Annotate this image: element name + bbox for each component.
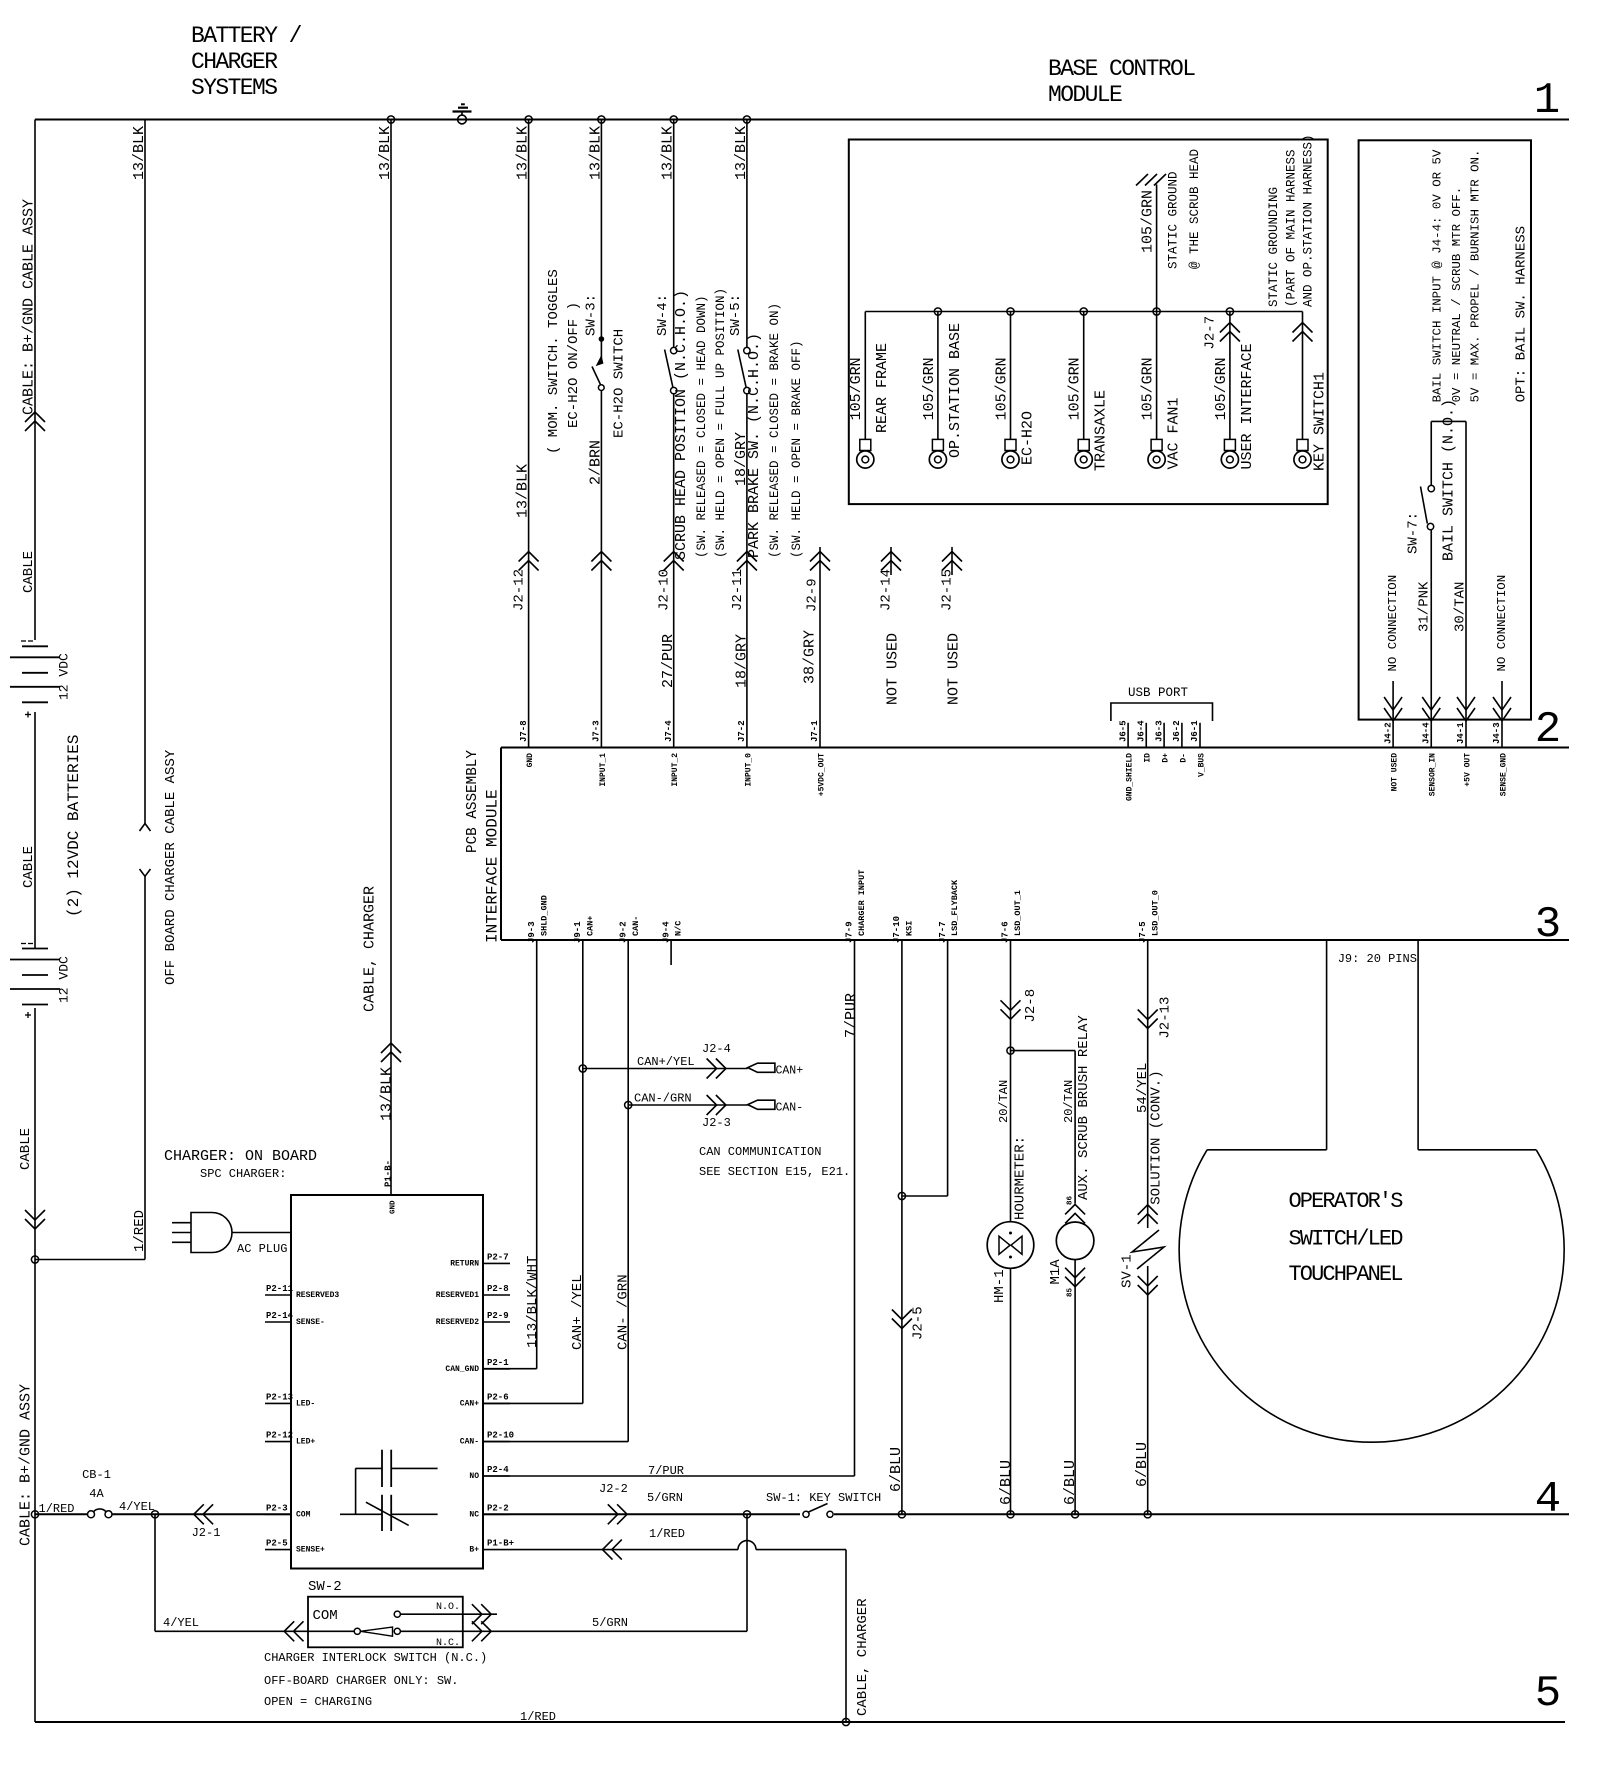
svg-text:27/PUR: 27/PUR [660, 634, 677, 688]
svg-text:J7-5: J7-5 [1138, 921, 1148, 943]
svg-text:NOT USED: NOT USED [945, 633, 962, 705]
svg-text:13/BLK: 13/BLK [514, 126, 531, 180]
svg-text:N.O.: N.O. [436, 1602, 460, 1613]
svg-text:PCB ASSEMBLY: PCB ASSEMBLY [465, 750, 481, 853]
svg-text:6/BLU: 6/BLU [888, 1447, 905, 1492]
svg-text:J2-4: J2-4 [702, 1042, 731, 1056]
svg-text:SENSOR_IN: SENSOR_IN [1429, 753, 1438, 796]
svg-text:(2) 12VDC BATTERIES: (2) 12VDC BATTERIES [65, 735, 83, 917]
svg-text:CAN+: CAN+ [776, 1065, 804, 1078]
svg-text:TOUCHPANEL: TOUCHPANEL [1289, 1262, 1403, 1287]
svg-text:13/BLK: 13/BLK [733, 126, 750, 180]
svg-text:@ THE SCRUB HEAD: @ THE SCRUB HEAD [1188, 149, 1202, 269]
svg-text:J2-10: J2-10 [657, 569, 673, 611]
svg-text:OPEN = CHARGING: OPEN = CHARGING [264, 1695, 372, 1709]
svg-text:P2-7: P2-7 [487, 1252, 509, 1262]
svg-text:J9-3: J9-3 [527, 921, 537, 943]
svg-text:18/GRY: 18/GRY [733, 634, 750, 688]
svg-text:D-: D- [1179, 753, 1188, 763]
svg-text:12 VDC: 12 VDC [57, 956, 72, 1003]
svg-text:CABLE: B+/GND ASSY: CABLE: B+/GND ASSY [17, 1384, 34, 1546]
svg-text:VAC FAN1: VAC FAN1 [1166, 397, 1183, 469]
svg-text:13/BLK: 13/BLK [131, 126, 148, 180]
svg-text:D+: D+ [1161, 753, 1170, 763]
svg-text:P2-13: P2-13 [266, 1392, 293, 1402]
svg-text:J4-4: J4-4 [1421, 722, 1431, 744]
svg-text:J2-11: J2-11 [730, 569, 746, 611]
svg-text:18/GRY: 18/GRY [733, 432, 750, 486]
svg-text:NOT USED: NOT USED [884, 633, 901, 705]
svg-text:NOT USED: NOT USED [1390, 753, 1399, 792]
svg-text:J2-1: J2-1 [192, 1526, 221, 1540]
svg-text:13/BLK: 13/BLK [660, 126, 677, 180]
svg-text:CHARGER INPUT: CHARGER INPUT [857, 870, 867, 936]
svg-text:4/YEL: 4/YEL [119, 1500, 155, 1514]
svg-text:COM: COM [296, 1510, 311, 1519]
svg-text:NO CONNECTION: NO CONNECTION [1386, 575, 1400, 672]
svg-text:J7-8: J7-8 [519, 720, 529, 742]
svg-text:+5V OUT: +5V OUT [1463, 753, 1472, 787]
svg-text:NC: NC [469, 1510, 479, 1519]
svg-text:105/GRN: 105/GRN [1213, 357, 1230, 420]
svg-text:13/BLK: 13/BLK [377, 126, 394, 180]
svg-text:OFF BOARD CHARGER CABLE ASSY: OFF BOARD CHARGER CABLE ASSY [163, 749, 179, 985]
svg-text:N.C.: N.C. [436, 1638, 460, 1649]
svg-text:BATTERY /: BATTERY / [191, 23, 302, 49]
svg-text:J4-3: J4-3 [1492, 722, 1502, 744]
svg-text:CAN COMMUNICATION: CAN COMMUNICATION [699, 1145, 821, 1159]
svg-text:CAN-/GRN: CAN-/GRN [634, 1092, 692, 1106]
svg-text:CAN+/YEL: CAN+/YEL [637, 1055, 695, 1069]
svg-text:P2-5: P2-5 [266, 1539, 288, 1549]
svg-text:(SW. HELD = OPEN = BRAKE OFF): (SW. HELD = OPEN = BRAKE OFF) [790, 340, 804, 558]
svg-text:1/RED: 1/RED [39, 1502, 75, 1516]
svg-text:12 VDC: 12 VDC [57, 653, 72, 700]
svg-text:AC PLUG: AC PLUG [237, 1242, 287, 1256]
svg-text:J7-6: J7-6 [1001, 921, 1011, 943]
svg-text:INPUT_2: INPUT_2 [671, 753, 680, 787]
svg-text:30/TAN: 30/TAN [1453, 582, 1469, 632]
svg-text:J2-15: J2-15 [940, 569, 956, 611]
svg-text:(SW. HELD = OPEN = FULL UP POS: (SW. HELD = OPEN = FULL UP POSITION) [714, 288, 728, 558]
svg-text:CHARGER INTERLOCK SWITCH (N.C.: CHARGER INTERLOCK SWITCH (N.C.) [264, 1651, 487, 1665]
svg-text:+5VDC_OUT: +5VDC_OUT [817, 753, 826, 796]
svg-text:SHLD_GND: SHLD_GND [539, 895, 549, 936]
svg-text:CAN+: CAN+ [460, 1399, 479, 1408]
svg-text:SW-4:: SW-4: [655, 294, 671, 336]
svg-text:LSD_OUT_1: LSD_OUT_1 [1013, 890, 1023, 936]
svg-text:J6-1: J6-1 [1190, 720, 1200, 742]
svg-text:BAIL SWITCH (N.O.): BAIL SWITCH (N.O.) [1440, 399, 1457, 561]
svg-text:J2-12: J2-12 [512, 569, 528, 611]
svg-text:SW-2: SW-2 [308, 1579, 342, 1595]
svg-text:KSI: KSI [904, 921, 914, 936]
svg-text:1/RED: 1/RED [649, 1527, 685, 1541]
svg-text:B+: B+ [469, 1546, 479, 1555]
svg-text:85: 85 [1067, 1287, 1075, 1297]
svg-text:KEY SWITCH1: KEY SWITCH1 [1311, 372, 1328, 471]
svg-text:SW-1: KEY SWITCH: SW-1: KEY SWITCH [766, 1491, 881, 1505]
svg-text:GND: GND [526, 753, 535, 768]
svg-text:M1A: M1A [1048, 1259, 1064, 1285]
svg-text:J7-1: J7-1 [810, 720, 820, 742]
svg-text:13/BLK: 13/BLK [378, 1067, 395, 1121]
svg-text:LED-: LED- [296, 1399, 315, 1408]
svg-text:P1-B-: P1-B- [384, 1160, 394, 1187]
svg-text:INTERFACE MODULE: INTERFACE MODULE [483, 789, 501, 943]
svg-text:1/RED: 1/RED [520, 1710, 556, 1724]
svg-text:LSD_OUT_0: LSD_OUT_0 [1150, 890, 1160, 936]
svg-text:105/GRN: 105/GRN [848, 357, 865, 420]
svg-text:LED+: LED+ [296, 1438, 315, 1447]
svg-text:86: 86 [1067, 1195, 1075, 1205]
svg-text:J2-13: J2-13 [1158, 997, 1174, 1039]
svg-text:J7-9: J7-9 [845, 921, 855, 943]
svg-text:STATIC GROUNDING: STATIC GROUNDING [1267, 187, 1281, 307]
svg-text:RETURN: RETURN [450, 1259, 479, 1268]
svg-text:J6-3: J6-3 [1154, 720, 1164, 742]
svg-text:SV-1: SV-1 [1120, 1254, 1136, 1288]
svg-text:CAN- /GRN: CAN- /GRN [616, 1274, 632, 1350]
svg-text:J2-14: J2-14 [879, 569, 895, 611]
svg-text:20/TAN: 20/TAN [997, 1080, 1011, 1123]
svg-text:SW-3:: SW-3: [584, 294, 600, 336]
svg-text:J6-5: J6-5 [1118, 720, 1128, 742]
svg-text:SYSTEMS: SYSTEMS [191, 75, 277, 101]
svg-text:J9: 20 PINS: J9: 20 PINS [1338, 952, 1417, 966]
svg-text:3: 3 [1535, 900, 1561, 950]
svg-text:SENSE_GND: SENSE_GND [1499, 753, 1508, 796]
svg-text:(PART OF MAIN HARNESS: (PART OF MAIN HARNESS [1285, 149, 1299, 307]
svg-text:5/GRN: 5/GRN [647, 1491, 683, 1505]
svg-text:SW-5:: SW-5: [728, 294, 744, 336]
svg-text:5V = MAX. PROPEL / BURNISH MTR: 5V = MAX. PROPEL / BURNISH MTR ON. [1468, 150, 1482, 403]
svg-text:CAN+: CAN+ [585, 916, 595, 936]
svg-text:1: 1 [1534, 76, 1560, 126]
svg-text:P2-4: P2-4 [487, 1465, 509, 1475]
svg-text:J7-4: J7-4 [664, 720, 674, 742]
svg-text:J9-2: J9-2 [618, 921, 628, 943]
svg-text:P2-2: P2-2 [487, 1503, 509, 1513]
svg-text:P2-1: P2-1 [487, 1358, 509, 1368]
svg-text:CHARGER: CHARGER [191, 49, 278, 75]
svg-text:J4-1: J4-1 [1456, 722, 1466, 744]
svg-text:P2-10: P2-10 [487, 1431, 514, 1441]
svg-text:GND: GND [390, 1200, 398, 1214]
svg-text:TRANSAXLE: TRANSAXLE [1093, 390, 1110, 471]
svg-text:LSD_FLYBACK: LSD_FLYBACK [950, 879, 960, 936]
svg-text:6/BLU: 6/BLU [1134, 1442, 1151, 1487]
svg-text:J9-4: J9-4 [661, 921, 671, 943]
svg-text:4A: 4A [89, 1487, 104, 1501]
svg-text:CABLE: CABLE [21, 551, 37, 593]
svg-text:105/GRN: 105/GRN [1067, 357, 1084, 420]
svg-text:13/BLK: 13/BLK [587, 126, 604, 180]
svg-text:105/GRN: 105/GRN [993, 357, 1010, 420]
svg-text:COM: COM [313, 1608, 338, 1624]
svg-text:J6-4: J6-4 [1136, 720, 1146, 742]
svg-text:5: 5 [1535, 1669, 1561, 1719]
svg-text:J7-7: J7-7 [938, 921, 948, 943]
svg-text:USER INTERFACE: USER INTERFACE [1239, 343, 1256, 469]
svg-text:7/PUR: 7/PUR [843, 993, 860, 1038]
svg-text:CABLE: CABLE [21, 846, 37, 888]
svg-text:7/PUR: 7/PUR [648, 1464, 684, 1478]
svg-text:SPC CHARGER:: SPC CHARGER: [200, 1167, 286, 1181]
svg-text:113/BLK/WHT: 113/BLK/WHT [525, 1256, 541, 1348]
svg-text:105/GRN: 105/GRN [1139, 190, 1156, 253]
svg-text:J2-2: J2-2 [599, 1482, 628, 1496]
svg-text:NO: NO [469, 1472, 479, 1481]
svg-text:EC-H2O ON/OFF ): EC-H2O ON/OFF ) [566, 302, 582, 428]
svg-text:P2-6: P2-6 [487, 1392, 509, 1402]
svg-text:SW-7:: SW-7: [1406, 512, 1422, 554]
svg-text:SEE SECTION E15, E21.: SEE SECTION E15, E21. [699, 1165, 850, 1179]
svg-text:6/BLU: 6/BLU [1062, 1460, 1079, 1505]
svg-text:OPT: BAIL SW. HARNESS: OPT: BAIL SW. HARNESS [1514, 226, 1530, 402]
svg-text:GND_SHIELD: GND_SHIELD [1125, 753, 1134, 801]
svg-text:J9-1: J9-1 [573, 921, 583, 943]
svg-text:P2-11: P2-11 [266, 1284, 294, 1294]
svg-text:CAN_GND: CAN_GND [445, 1365, 479, 1374]
svg-text:( MOM. SWITCH. TOGGLES: ( MOM. SWITCH. TOGGLES [546, 269, 562, 454]
svg-text:EC-H2O SWITCH: EC-H2O SWITCH [612, 329, 628, 438]
svg-text:OP.STATION BASE: OP.STATION BASE [947, 323, 964, 458]
svg-text:USB PORT: USB PORT [1128, 686, 1189, 700]
svg-text:CAN-: CAN- [776, 1102, 804, 1115]
svg-text:J7-10: J7-10 [892, 916, 902, 943]
svg-text:MODULE: MODULE [1048, 82, 1122, 108]
svg-text:P2-8: P2-8 [487, 1284, 509, 1294]
svg-text:CHARGER: ON BOARD: CHARGER: ON BOARD [164, 1148, 317, 1165]
svg-text:AUX. SCRUB BRUSH RELAY: AUX. SCRUB BRUSH RELAY [1076, 1015, 1092, 1200]
svg-text:20/TAN: 20/TAN [1062, 1080, 1076, 1123]
svg-text:NO CONNECTION: NO CONNECTION [1495, 575, 1509, 672]
svg-text:RESERVED1: RESERVED1 [436, 1291, 479, 1300]
svg-text:CB-1: CB-1 [82, 1468, 111, 1482]
svg-text:CABLE: B+/GND CABLE ASSY: CABLE: B+/GND CABLE ASSY [20, 199, 37, 415]
svg-text:SENSE+: SENSE+ [296, 1546, 325, 1555]
svg-text:SENSE-: SENSE- [296, 1318, 325, 1327]
svg-text:REAR FRAME: REAR FRAME [874, 343, 891, 433]
svg-text:CAN+ /YEL: CAN+ /YEL [570, 1274, 586, 1350]
svg-text:J4-2: J4-2 [1383, 722, 1393, 744]
svg-text:P2-12: P2-12 [266, 1431, 293, 1441]
svg-text:105/GRN: 105/GRN [1140, 357, 1157, 420]
svg-text:BASE CONTROL: BASE CONTROL [1048, 56, 1195, 82]
svg-text:(SW. RELEASED = CLOSED = HEAD: (SW. RELEASED = CLOSED = HEAD DOWN) [695, 295, 709, 558]
svg-text:5/GRN: 5/GRN [592, 1616, 628, 1630]
svg-text:1/RED: 1/RED [132, 1210, 148, 1252]
svg-text:P2-9: P2-9 [487, 1311, 509, 1321]
svg-text:AND OP.STATION HARNESS): AND OP.STATION HARNESS) [1302, 134, 1316, 307]
svg-text:RESERVED2: RESERVED2 [436, 1318, 479, 1327]
svg-text:105/GRN: 105/GRN [921, 357, 938, 420]
svg-text:STATIC GROUND: STATIC GROUND [1167, 171, 1181, 269]
svg-text:HOURMETER:: HOURMETER: [1013, 1136, 1029, 1220]
svg-text:J2-8: J2-8 [1023, 989, 1039, 1023]
svg-text:38/GRY: 38/GRY [801, 630, 818, 684]
svg-text:INPUT_0: INPUT_0 [744, 753, 753, 787]
svg-text:P1-B+: P1-B+ [487, 1539, 514, 1549]
svg-text:(SW. RELEASED = CLOSED = BRAKE: (SW. RELEASED = CLOSED = BRAKE ON) [768, 303, 782, 558]
svg-text:ID: ID [1144, 753, 1153, 763]
svg-text:OFF-BOARD CHARGER ONLY: SW.: OFF-BOARD CHARGER ONLY: SW. [264, 1674, 458, 1688]
svg-text:HM-1: HM-1 [992, 1269, 1008, 1303]
svg-text:CABLE, CHARGER: CABLE, CHARGER [855, 1598, 871, 1716]
svg-text:J2-5: J2-5 [911, 1306, 927, 1340]
svg-text:CABLE, CHARGER: CABLE, CHARGER [361, 886, 378, 1012]
svg-text:P2-3: P2-3 [266, 1503, 288, 1513]
svg-text:31/PNK: 31/PNK [1417, 581, 1433, 632]
svg-text:2/BRN: 2/BRN [587, 440, 604, 485]
svg-text:EC-H2O: EC-H2O [1019, 411, 1036, 465]
svg-text:SOLUTION (CONV.): SOLUTION (CONV.) [1149, 1070, 1165, 1204]
svg-text:BAIL SWITCH INPUT @ J4-4: 0V O: BAIL SWITCH INPUT @ J4-4: 0V OR 5V [1430, 149, 1444, 402]
svg-text:J6-2: J6-2 [1172, 720, 1182, 742]
svg-text:INPUT_1: INPUT_1 [599, 753, 608, 787]
svg-text:CABLE: CABLE [18, 1128, 34, 1170]
svg-text:SWITCH/LED: SWITCH/LED [1289, 1227, 1404, 1252]
svg-text:CAN-: CAN- [460, 1438, 479, 1447]
svg-text:J2-3: J2-3 [702, 1116, 731, 1130]
svg-text:SCRUB HEAD POSITION (N.C.H.O.): SCRUB HEAD POSITION (N.C.H.O.) [673, 290, 690, 560]
svg-text:V_BUS: V_BUS [1197, 753, 1206, 777]
svg-text:OPERATOR'S: OPERATOR'S [1289, 1189, 1404, 1214]
svg-text:2: 2 [1535, 705, 1561, 755]
svg-text:CAN-: CAN- [631, 916, 641, 936]
svg-text:P2-14: P2-14 [266, 1311, 294, 1321]
svg-text:6/BLU: 6/BLU [998, 1460, 1015, 1505]
svg-text:J7-3: J7-3 [592, 720, 602, 742]
svg-text:4: 4 [1535, 1475, 1561, 1525]
svg-text:J2-9: J2-9 [805, 578, 821, 612]
svg-text:RESERVED3: RESERVED3 [296, 1291, 339, 1300]
svg-text:J2-7: J2-7 [1203, 316, 1219, 350]
svg-text:0V = NEUTRAL / SCRUB MTR OFF.: 0V = NEUTRAL / SCRUB MTR OFF. [1450, 187, 1464, 403]
svg-text:4/YEL: 4/YEL [163, 1616, 199, 1630]
svg-text:13/BLK: 13/BLK [514, 464, 531, 518]
svg-text:J7-2: J7-2 [737, 720, 747, 742]
svg-text:N/C: N/C [674, 921, 684, 936]
